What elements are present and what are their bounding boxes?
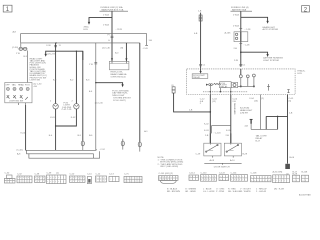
wire ground right page bbox=[287, 95, 289, 164]
page marker 2 bbox=[302, 6, 310, 14]
connector C-28 bbox=[239, 27, 242, 29]
connector C-122 table bbox=[219, 172, 229, 180]
svg-text:DASHBOARD: DASHBOARD bbox=[233, 103, 236, 115]
connector C-120 table bbox=[201, 172, 217, 181]
svg-text:(R) : R-DR: (R) : R-DR bbox=[274, 188, 285, 190]
wire U route to door switch column bbox=[174, 93, 211, 112]
svg-text:C-101 (GR) (2): C-101 (GR) (2) bbox=[159, 173, 174, 175]
svg-text:AUTO SYSTEM: AUTO SYSTEM bbox=[263, 28, 279, 31]
svg-text:4-B: 4-B bbox=[194, 33, 198, 35]
wire branch daytime bbox=[241, 52, 268, 55]
transistor element bbox=[267, 84, 270, 91]
connector C-50 table bbox=[70, 173, 86, 182]
svg-text:C-30: C-30 bbox=[46, 45, 51, 47]
svg-text:FOG LIGHT): FOG LIGHT) bbox=[113, 100, 126, 102]
svg-text:2 W-B: 2 W-B bbox=[233, 14, 239, 16]
svg-text:C-30: C-30 bbox=[5, 172, 10, 174]
svg-text:2 W-B: 2 W-B bbox=[233, 25, 239, 27]
svg-text:(LH) RH: (LH) RH bbox=[240, 112, 248, 114]
wire ground bus 1 bbox=[26, 149, 97, 151]
svg-text:(12): (12) bbox=[212, 101, 216, 103]
inline connector to meter bbox=[172, 87, 175, 93]
svg-text:C-120: C-120 bbox=[201, 172, 208, 174]
svg-text:RELAY: RELAY bbox=[193, 76, 200, 79]
connector C-128 table bbox=[251, 172, 272, 181]
wire columns into column switch bbox=[125, 43, 127, 61]
svg-text:C-41 C-26: C-41 C-26 bbox=[62, 109, 73, 111]
svg-text:ONLY (LHD-LESS): ONLY (LHD-LESS) bbox=[160, 166, 178, 168]
ETACS-ECU box bbox=[187, 69, 295, 95]
svg-text:DOOR SWITCH: DOOR SWITCH bbox=[214, 167, 230, 169]
svg-text:GR : GRAY: GR : GRAY bbox=[185, 190, 196, 193]
svg-text:ECU: ECU bbox=[298, 73, 303, 75]
wire sensor path bbox=[238, 74, 256, 87]
wire col to connector oval x84 bbox=[82, 51, 84, 141]
fog light bulb RH bbox=[74, 104, 79, 109]
svg-text:P : PINK: P : PINK bbox=[216, 191, 225, 193]
label fog light relay text bbox=[112, 89, 131, 102]
svg-text:2 : LHD-W: 2 : LHD-W bbox=[256, 191, 267, 193]
wire fog light feed horizontal bbox=[46, 51, 83, 60]
svg-text:K-01: K-01 bbox=[50, 117, 55, 119]
svg-text:LG : L-GRN: LG : L-GRN bbox=[203, 191, 215, 193]
door switch LH box bbox=[204, 133, 221, 157]
svg-text:(8): (8) bbox=[121, 47, 124, 49]
connector ticks C1 bbox=[199, 63, 202, 65]
wire fog right drop bbox=[75, 51, 77, 103]
connector C128 bbox=[107, 29, 123, 42]
svg-text:C-32: C-32 bbox=[17, 173, 22, 175]
svg-text:(1): (1) bbox=[171, 85, 174, 87]
svg-text:: C-28: : C-28 bbox=[245, 29, 252, 31]
svg-text:C-39: C-39 bbox=[47, 172, 52, 174]
svg-text:C-12: C-12 bbox=[96, 173, 101, 175]
wire dark drop from bus to oval x140 bbox=[139, 43, 141, 142]
svg-text:C-38: C-38 bbox=[35, 173, 40, 175]
connector pin number dots bbox=[5, 176, 306, 182]
svg-text:AC610977AB: AC610977AB bbox=[299, 193, 311, 196]
svg-text:(13): (13) bbox=[254, 101, 258, 103]
svg-text:2-B: 2-B bbox=[234, 48, 238, 50]
svg-text:LIGHT SYSTEM: LIGHT SYSTEM bbox=[263, 60, 279, 62]
junction on bus at C-30 bbox=[55, 42, 56, 43]
relay coil and contacts inside ETACS bbox=[206, 69, 249, 95]
node fusible link (left page feed) bbox=[100, 6, 129, 11]
svg-text:LIGHT SW: LIGHT SW bbox=[30, 79, 41, 81]
connector C-13 table bbox=[109, 173, 119, 181]
svg-text:4-B: 4-B bbox=[34, 86, 38, 88]
svg-text:A-16X: A-16X bbox=[225, 31, 232, 34]
connector C-28 lower bbox=[239, 42, 242, 44]
svg-text:C-114: C-114 bbox=[189, 172, 195, 174]
connector oval terminator x84 bbox=[81, 141, 84, 150]
connector C-38 table bbox=[35, 173, 46, 182]
svg-text:C-124: C-124 bbox=[231, 172, 238, 174]
connector C-101 oval table bbox=[159, 173, 179, 184]
svg-text:BR : BROWN: BR : BROWN bbox=[167, 191, 180, 193]
junction daytime running bbox=[240, 51, 242, 53]
svg-text:1 W-B: 1 W-B bbox=[103, 15, 109, 17]
svg-text:C-128: C-128 bbox=[251, 172, 258, 174]
wire inside lower bus bbox=[203, 91, 248, 93]
svg-text:OVER SW B-16: OVER SW B-16 bbox=[111, 76, 127, 78]
door switch RH box bbox=[224, 133, 241, 157]
wire ground bus 3 bbox=[29, 151, 100, 158]
wire bus bottom bbox=[21, 42, 140, 44]
door switch bracket bbox=[204, 162, 241, 164]
svg-text:C-50: C-50 bbox=[70, 173, 75, 175]
wire lighting switch to ground bus bbox=[25, 105, 27, 150]
wire door switch 2 column bbox=[230, 95, 232, 126]
wire cross link bbox=[212, 125, 231, 127]
connector ovals pair under bus bbox=[19, 47, 27, 50]
wire to lighting switch bbox=[27, 51, 29, 83]
svg-text:A-31 (GR): A-31 (GR) bbox=[273, 170, 283, 173]
svg-text:C-75: C-75 bbox=[124, 173, 129, 175]
connector C-124 table bbox=[231, 172, 248, 181]
connector A-31 table bbox=[273, 170, 290, 182]
svg-text:LIGHTING SW: LIGHTING SW bbox=[9, 101, 24, 103]
lighting switch box bbox=[5, 83, 32, 103]
connector tick C-05 bbox=[145, 44, 148, 46]
connector oval terminator x139.8 bbox=[138, 142, 141, 152]
wire drop from bus to ovals bbox=[20, 43, 22, 47]
svg-text:u(T)-2 B: u(T)-2 B bbox=[47, 53, 55, 55]
svg-text:1 W-B: 1 W-B bbox=[103, 24, 109, 26]
wire door switch 1 column bbox=[209, 95, 211, 144]
connector B-17 table bbox=[293, 171, 300, 181]
wire drop from bus to fog bulb LH bbox=[55, 43, 57, 104]
wire horizontal to fog relay arrow bbox=[96, 83, 123, 86]
circuit list text block bbox=[30, 57, 48, 81]
diode bbox=[287, 90, 289, 93]
svg-text:2-B: 2-B bbox=[205, 135, 209, 137]
junction fog RH bbox=[76, 51, 77, 52]
fog light relay block inside bbox=[192, 69, 208, 79]
antenna connector bbox=[250, 119, 253, 123]
connector oval terminator x122.6 bbox=[121, 139, 124, 150]
wire main feed left page bbox=[111, 11, 113, 61]
column switch box bbox=[109, 61, 128, 78]
svg-text:: C128: : C128 bbox=[116, 29, 123, 31]
svg-text:4-B: 4-B bbox=[245, 126, 249, 128]
wire door switch 2 lower bbox=[230, 126, 232, 144]
ground bbox=[285, 164, 290, 169]
svg-text:HEAD: HEAD bbox=[18, 83, 24, 86]
connector ticks below switch bbox=[17, 103, 19, 105]
svg-text:: C-120: : C-120 bbox=[214, 132, 222, 134]
svg-text:: C-05: : C-05 bbox=[142, 48, 149, 50]
wire to tail relay bbox=[260, 95, 262, 130]
svg-text:2-B: 2-B bbox=[226, 135, 230, 137]
svg-text:C-29: C-29 bbox=[196, 154, 201, 156]
relay box A-16X bbox=[225, 31, 248, 41]
svg-text:B-128: B-128 bbox=[302, 171, 309, 173]
svg-text:ECU: ECU bbox=[84, 29, 89, 31]
arrow fog relay bbox=[121, 84, 123, 87]
svg-text:OFF: OFF bbox=[5, 84, 10, 86]
wire ground bus 2 bbox=[27, 150, 94, 158]
svg-text:1-B: 1-B bbox=[149, 40, 153, 42]
svg-text:SB : S-BLUE: SB : S-BLUE bbox=[228, 191, 241, 193]
svg-text:(2) C-30: (2) C-30 bbox=[102, 47, 111, 49]
wire branch to 4WD bbox=[89, 18, 112, 24]
legend wire colors bbox=[167, 187, 285, 192]
svg-text:2-B: 2-B bbox=[189, 110, 193, 112]
arrow headlight auto bbox=[266, 21, 268, 24]
connector C-10 table bbox=[87, 173, 92, 183]
connector C-114 table bbox=[189, 172, 199, 180]
page marker 1 bbox=[3, 5, 12, 13]
svg-text:1-B: 1-B bbox=[198, 11, 202, 13]
svg-text:: C-52: : C-52 bbox=[99, 149, 106, 151]
fog light bulb LH bbox=[53, 104, 58, 109]
wire bus loop left page bbox=[21, 34, 147, 46]
svg-text:RELAY: RELAY bbox=[221, 86, 228, 89]
svg-text:(2): (2) bbox=[261, 98, 264, 100]
wire column C-30 feed bbox=[95, 43, 97, 150]
connector C-12 table bbox=[96, 173, 107, 182]
connector C-30 table bbox=[4, 172, 15, 183]
svg-text:(1): (1) bbox=[56, 172, 59, 174]
wire ignition feed bbox=[200, 13, 202, 69]
svg-text:2-B: 2-B bbox=[289, 112, 293, 114]
svg-text:C-13: C-13 bbox=[109, 173, 114, 175]
connector on ignition wire bbox=[199, 15, 202, 21]
svg-text:W : WHITE: W : WHITE bbox=[240, 191, 251, 193]
arrow 4WD bbox=[88, 22, 90, 25]
svg-text:(C-32): (C-32) bbox=[17, 150, 23, 152]
connector C-39 table bbox=[47, 172, 67, 183]
svg-text:K-02: K-02 bbox=[71, 117, 76, 119]
svg-text:(C-30): (C-30) bbox=[12, 47, 18, 49]
svg-text:C-10: C-10 bbox=[87, 173, 92, 175]
svg-text:FOG: FOG bbox=[25, 84, 30, 86]
connector C-32 table bbox=[17, 173, 32, 182]
svg-text:: C-28: : C-28 bbox=[244, 45, 251, 47]
note block bbox=[158, 157, 184, 168]
wire branch headlight auto bbox=[241, 17, 268, 22]
arrow fog feed bbox=[45, 54, 47, 57]
tail light relay wires bbox=[266, 115, 287, 117]
svg-text:(5): (5) bbox=[289, 101, 292, 103]
svg-text:(1) C-30: (1) C-30 bbox=[95, 102, 104, 104]
svg-text:(2): (2) bbox=[107, 34, 110, 36]
connector C-75 table bbox=[124, 173, 142, 182]
wire main feed right page bbox=[240, 11, 242, 66]
svg-text:C-122: C-122 bbox=[219, 172, 226, 174]
top label page2 (battery feed) bbox=[231, 7, 253, 11]
connector B-128 table bbox=[302, 171, 309, 181]
wires below fog bulbs bbox=[55, 109, 57, 150]
